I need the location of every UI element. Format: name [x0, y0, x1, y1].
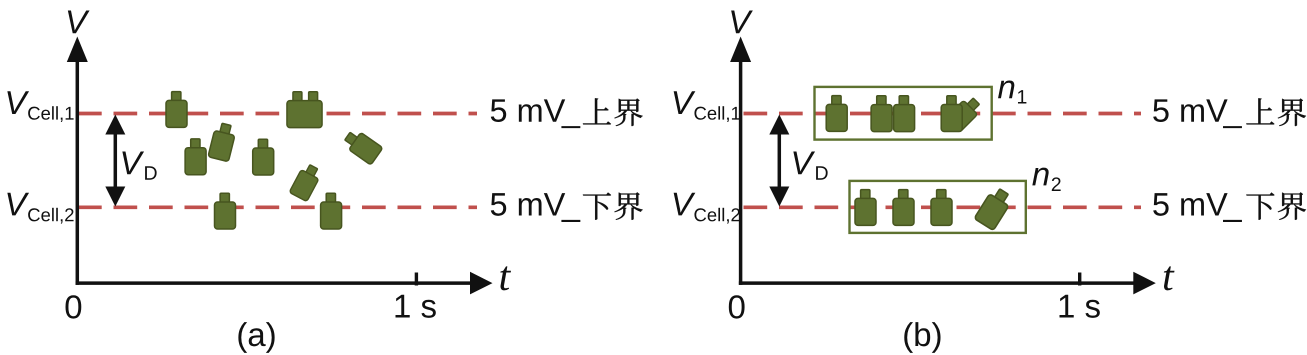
- V_D double arrow (b): [778, 130, 782, 191]
- tick 1s (b): [1078, 273, 1081, 286]
- dashed upper bound line (a): [78, 112, 477, 116]
- battery cell a4: [185, 139, 206, 175]
- tick 1s (a): [415, 273, 418, 286]
- battery cell a9 on lower bound: [321, 193, 342, 229]
- plot b: [674, 10, 1306, 352]
- group box n2: [850, 181, 1026, 233]
- battery cell a6 tilted left: [342, 127, 383, 165]
- dashed lower bound line (a): [78, 205, 477, 209]
- battery cell b3 in box n1: [894, 96, 915, 132]
- label n1: [998, 80, 1014, 98]
- battery cell a5: [253, 139, 274, 175]
- plot a: [7, 10, 642, 352]
- label n2: [1032, 168, 1048, 186]
- battery cell a1 on upper bound: [166, 92, 187, 128]
- battery cell c4 tilted in box n2: [974, 186, 1014, 231]
- V_D double arrow (a): [114, 130, 118, 191]
- battery cell c1 in box n2: [855, 190, 876, 226]
- dashed lower bound line (b): [744, 205, 1142, 209]
- y-axis (a): [76, 50, 80, 285]
- labels (b): [731, 10, 753, 33]
- battery cell b5 tilted in box n1: [945, 94, 983, 132]
- battery cell b1 in box n1: [826, 96, 847, 132]
- battery pack a2 (two nubs) on upper bound: [287, 92, 322, 128]
- y-axis (b): [739, 50, 743, 285]
- group box n1: [815, 87, 992, 140]
- x-axis (a): [76, 281, 471, 285]
- battery cell a7 tilted: [289, 162, 323, 201]
- battery cell b4 in box n1: [941, 96, 962, 132]
- labels (a): [68, 10, 90, 33]
- dashed upper bound line (b): [744, 112, 1142, 116]
- battery cell a8 on lower bound: [215, 193, 236, 229]
- battery cell a3 tilted: [208, 122, 237, 162]
- battery cell c3 in box n2: [931, 190, 952, 226]
- x-axis (b): [739, 281, 1134, 285]
- battery cell b2 in box n1: [871, 96, 892, 132]
- battery cell c2 in box n2: [893, 190, 914, 226]
